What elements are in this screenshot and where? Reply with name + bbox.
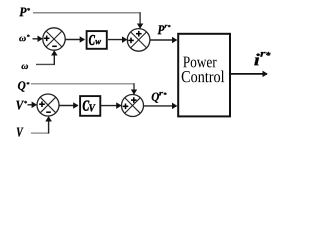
wire V up into summer S3 [48, 117, 50, 133]
node P^r* label [158, 25, 171, 34]
wire output i^r* [230, 73, 267, 75]
plus sign S4 top input [131, 97, 137, 103]
wire S4 to Power Control block (Q^r* signal) [144, 105, 177, 107]
block Power Control [178, 34, 230, 117]
summing junction S1 [43, 28, 65, 50]
node omega* reference input [19, 35, 29, 42]
node P* reference input [19, 8, 30, 17]
plus sign S2 left input [128, 38, 134, 44]
wire omega up into summer S1 [53, 51, 55, 65]
wire P* horizontal [33, 12, 141, 14]
plus sign S2 top input [136, 31, 142, 37]
wire S2 to Power Control block (P^r* signal) [150, 39, 176, 41]
plus sign S1 left input [44, 36, 50, 42]
node V measured input [17, 128, 24, 137]
wire V horizontal [31, 132, 49, 134]
node Q^r* label [152, 92, 167, 103]
wire P* down into summer S2 [139, 12, 141, 28]
plus sign S4 left input [123, 104, 129, 110]
wire Q* down into summer S4 [133, 83, 135, 94]
node V* reference input [16, 101, 27, 110]
wire S3 to C-V block [59, 105, 78, 107]
wire C-omega to summer S2 [108, 39, 127, 41]
node i^r* output label [254, 52, 270, 65]
summing junction S2 [127, 29, 150, 52]
node Q* reference input [18, 81, 29, 91]
summing junction S3 [37, 94, 59, 116]
gain block C-V [80, 96, 100, 116]
wire Q* horizontal [31, 83, 135, 85]
node omega measured input [22, 65, 29, 70]
plus sign S3 left input [39, 101, 45, 107]
wire V* into summer S3 [28, 104, 37, 106]
minus sign S3 bottom input [46, 111, 51, 113]
wire S1 to C-omega block [65, 39, 84, 41]
minus sign S1 bottom input [52, 45, 57, 47]
gain block C-omega [87, 31, 107, 49]
wire C-V to summer S4 [101, 105, 121, 107]
wire omega* into summer S1 [33, 38, 43, 40]
summing junction S4 [122, 95, 144, 117]
wire omega horizontal [36, 63, 55, 65]
